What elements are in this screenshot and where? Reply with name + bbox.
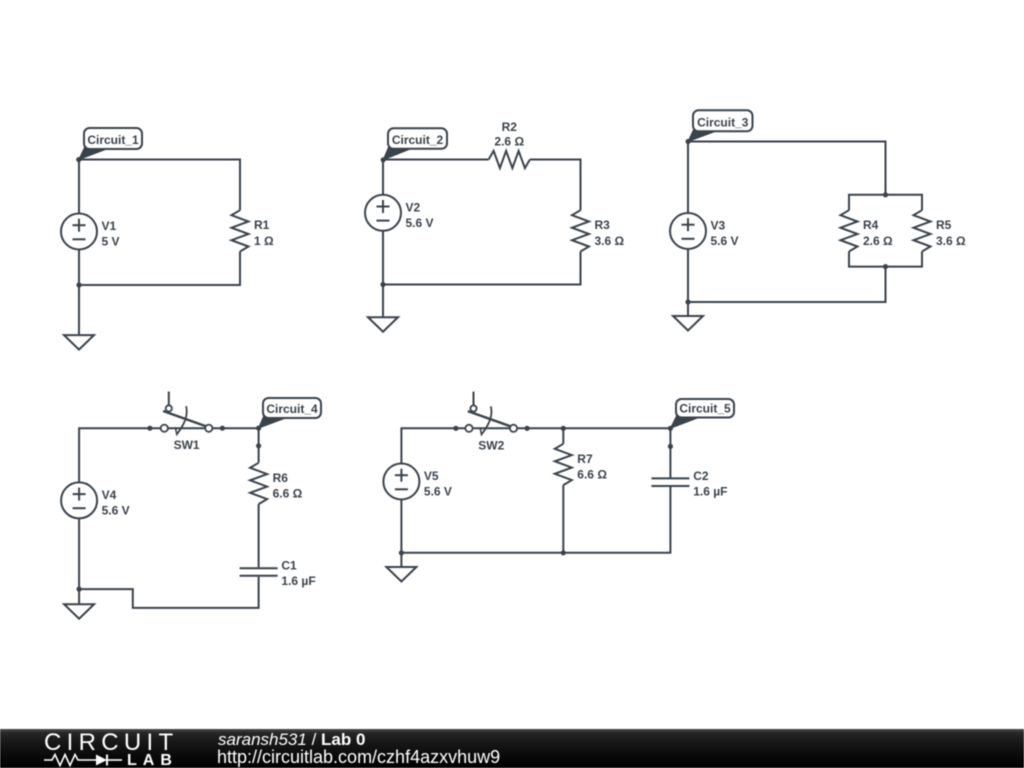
svg-text:R3: R3 [595, 218, 611, 232]
svg-text:3.6 Ω: 3.6 Ω [936, 234, 966, 248]
svg-text:5 V: 5 V [102, 235, 120, 249]
svg-text:5.6 V: 5.6 V [406, 216, 434, 230]
svg-text:R6: R6 [273, 471, 289, 485]
svg-text:R5: R5 [936, 218, 952, 232]
svg-text:5.6 V: 5.6 V [424, 485, 452, 499]
svg-text:1 Ω: 1 Ω [254, 234, 274, 248]
svg-text:C1: C1 [281, 559, 297, 573]
svg-text:Circuit_4: Circuit_4 [266, 402, 318, 416]
svg-text:3.6 Ω: 3.6 Ω [595, 234, 625, 248]
svg-text:5.6 V: 5.6 V [711, 234, 739, 248]
svg-text:6.6 Ω: 6.6 Ω [273, 486, 303, 500]
svg-text:6.6 Ω: 6.6 Ω [577, 467, 607, 481]
svg-text:R4: R4 [863, 218, 879, 232]
svg-text:Circuit_3: Circuit_3 [697, 115, 749, 129]
svg-text:SW2: SW2 [478, 438, 504, 452]
svg-text:Circuit_1: Circuit_1 [87, 133, 139, 147]
svg-text:V4: V4 [102, 488, 117, 502]
svg-text:C2: C2 [693, 469, 709, 483]
svg-text:2.6 Ω: 2.6 Ω [494, 135, 524, 149]
svg-text:2.6 Ω: 2.6 Ω [863, 234, 893, 248]
svg-text:R1: R1 [254, 218, 270, 232]
svg-text:Circuit_5: Circuit_5 [679, 402, 731, 416]
svg-text:V5: V5 [424, 469, 439, 483]
svg-text:R7: R7 [577, 452, 593, 466]
svg-text:V3: V3 [711, 219, 726, 233]
svg-text:V2: V2 [406, 200, 421, 214]
svg-text:V1: V1 [102, 219, 117, 233]
svg-text:1.6 µF: 1.6 µF [281, 574, 315, 588]
svg-text:R2: R2 [502, 120, 518, 134]
svg-text:SW1: SW1 [174, 438, 200, 452]
svg-text:5.6 V: 5.6 V [102, 504, 130, 518]
svg-text:1.6 µF: 1.6 µF [693, 484, 727, 498]
svg-text:Circuit_2: Circuit_2 [392, 133, 444, 147]
